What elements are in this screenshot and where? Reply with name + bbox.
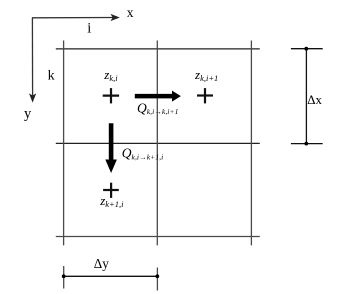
flow arrow Q right [135, 91, 181, 102]
svg-text:zk,i: zk,i [103, 67, 118, 83]
x-axis arrowhead [111, 14, 120, 21]
y-axis arrowhead [29, 93, 36, 102]
grid horizontal line 3 [56, 236, 260, 238]
dimension delta-y right tick [156, 268, 158, 291]
node marker + cell (k+1,i) [103, 183, 119, 198]
y-axis line [31, 18, 33, 97]
dimension delta-x top bar [291, 48, 323, 50]
dimension delta-x bottom dot [304, 142, 308, 146]
grid vertical line 1 [63, 41, 65, 246]
node marker + cell (k,i+1) [197, 88, 213, 103]
dimension delta-y left tick [63, 266, 65, 289]
svg-text:zk,i+1: zk,i+1 [194, 67, 218, 83]
flow arrow Q down [105, 123, 117, 173]
svg-text:i: i [87, 21, 91, 37]
dimension delta-y left dot [62, 274, 66, 278]
svg-text:Δx: Δx [307, 93, 322, 107]
dimension delta-x top dot [304, 47, 308, 51]
grid horizontal line 1 [56, 48, 260, 50]
dimension delta-y right dot [155, 274, 159, 278]
dimension delta-y horizontal line [64, 275, 158, 277]
grid horizontal line 2 [56, 142, 260, 144]
svg-text:x: x [127, 5, 134, 20]
grid vertical line 2 [156, 41, 158, 246]
node marker + cell (k,i) [103, 88, 119, 103]
svg-text:y: y [24, 106, 32, 122]
svg-text:k: k [48, 68, 55, 83]
x-axis line [32, 17, 114, 19]
dimension delta-x bottom bar [291, 143, 323, 145]
grid vertical line 3 [250, 41, 252, 246]
svg-text:Δy: Δy [94, 256, 109, 271]
dimension delta-x vertical line [305, 49, 307, 144]
